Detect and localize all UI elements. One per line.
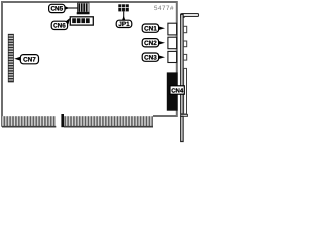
edge connector segment 1 (8-bit fingers) — [2, 116, 56, 127]
CN4 label — [170, 86, 184, 95]
CN5 label — [49, 4, 70, 12]
CN3 label — [142, 53, 165, 61]
svg-text:CN7: CN7 — [23, 57, 36, 64]
CN4 connector body on card (black) — [167, 72, 178, 110]
svg-text:JP1: JP1 — [118, 21, 130, 28]
JP1 jumper block (2x3 pins) — [118, 4, 129, 11]
metal bracket upper strip — [181, 14, 183, 114]
CN5 pointer line — [69, 7, 78, 9]
card PCB outline (top, left, right, bottom-right edges) — [2, 2, 177, 127]
edge connector segment 2 (16-bit fingers) — [64, 116, 153, 127]
CN3 connector body on card — [168, 51, 177, 62]
CN1 connector body on card — [168, 23, 177, 35]
metal bracket lower strip — [181, 116, 183, 141]
CN2 label — [142, 39, 165, 47]
svg-text:CN4: CN4 — [171, 88, 184, 95]
CN2 connector body on card — [168, 37, 177, 49]
svg-text:5477#: 5477# — [154, 5, 174, 12]
JP1 label — [116, 16, 132, 28]
svg-text:CN2: CN2 — [144, 40, 157, 47]
CN6 component (4-position header) — [70, 17, 93, 25]
svg-text:CN3: CN3 — [144, 54, 157, 61]
CN1 label — [142, 24, 165, 32]
CN3 jack barrel (right of bracket) — [183, 54, 186, 60]
svg-text:CN1: CN1 — [144, 25, 157, 32]
CN7 label — [14, 55, 38, 64]
edge connector key bar — [61, 114, 64, 127]
CN1 jack barrel (right of bracket) — [183, 26, 186, 32]
CN7 pin header strip — [8, 34, 13, 82]
CN6 label — [51, 18, 70, 30]
svg-text:CN6: CN6 — [53, 23, 66, 30]
metal bracket top flange — [181, 14, 199, 18]
CN5 component (striped header) — [77, 3, 90, 14]
JP1 pointer line — [123, 11, 125, 17]
metal bracket bottom tab — [181, 114, 188, 116]
svg-text:CN5: CN5 — [50, 6, 63, 13]
CN4 D-sub shell (right of bracket) — [184, 68, 187, 114]
CN2 jack barrel (right of bracket) — [183, 41, 186, 47]
